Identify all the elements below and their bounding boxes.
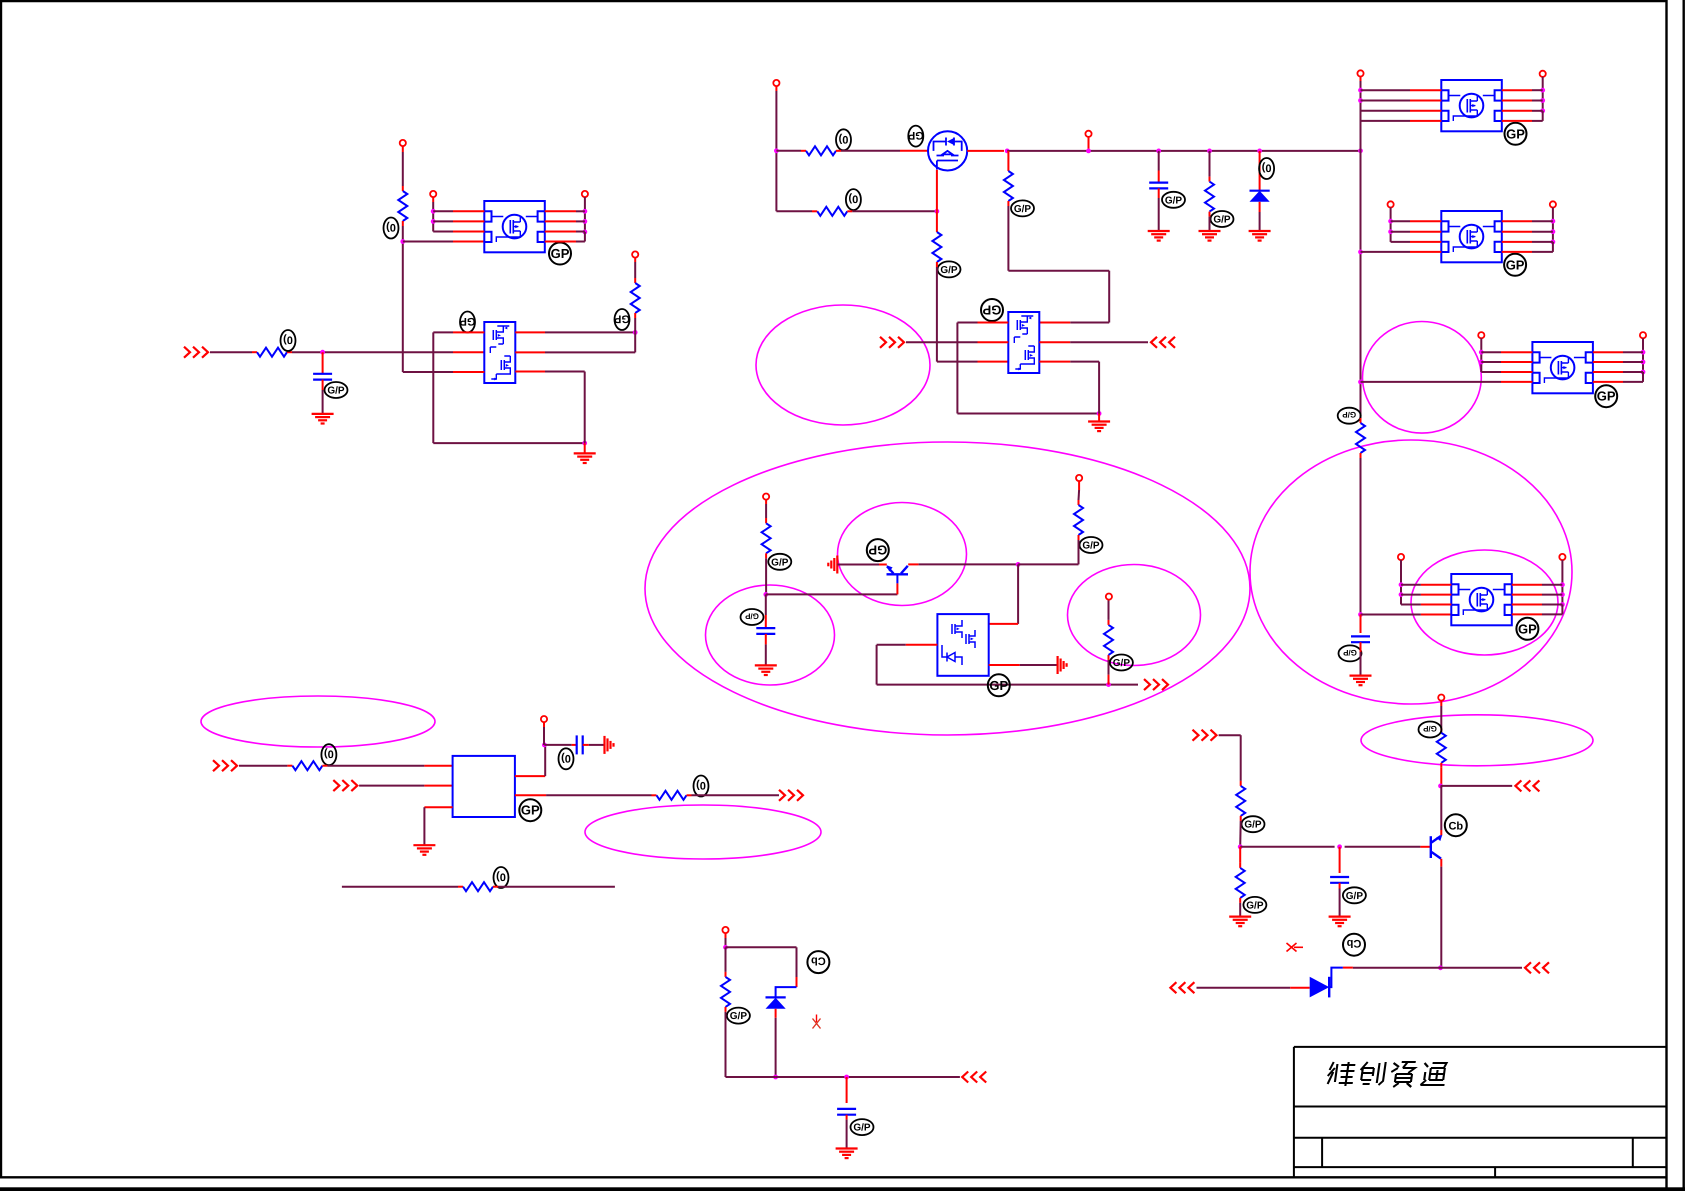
markup ellipse E1 (large center): [645, 442, 1250, 735]
wire U3 left pin3: [1361, 110, 1442, 112]
power port P4: [632, 251, 638, 257]
capacitor C7: [837, 1109, 856, 1115]
wire U4 right pin2 out: [1039, 341, 1148, 343]
power port P18: [541, 716, 547, 722]
svg-text:GP: GP: [908, 129, 924, 141]
label bubble for R13: [321, 744, 336, 765]
junction P8 row1: [1540, 88, 1545, 93]
ground symbol G12: [836, 1149, 858, 1159]
wire A6 to U7: [359, 785, 453, 787]
junction P11 row2: [1479, 360, 1484, 365]
mosfet package U6: [1532, 342, 1593, 393]
junction node base divider: [1238, 844, 1243, 849]
wire C6 to ground: [1339, 883, 1341, 917]
wire right bus vertical: [1360, 77, 1362, 419]
junction P2 bus row2: [431, 219, 436, 224]
wire C5 to earth: [583, 744, 604, 746]
title block outline: [1294, 1047, 1667, 1177]
junction node P6: [1086, 149, 1091, 154]
wire U4 left pin1 ground loop: [957, 323, 1099, 414]
net output arrow >>> A7: [779, 790, 803, 801]
ground symbol G2: [312, 414, 334, 424]
label bubble for R8: [1011, 200, 1034, 216]
markup ellipse E7 (flat, around resistor R19): [1361, 715, 1593, 766]
junction node C2 tap: [1156, 149, 1161, 154]
resistor R11: [1074, 505, 1083, 535]
wire P8 bus: [1542, 77, 1544, 111]
ground symbol G7: [1350, 676, 1372, 686]
power port P3: [582, 191, 588, 197]
wire R3 to junction and U2: [287, 351, 484, 353]
wire P6 stem: [1088, 137, 1090, 151]
net input arrow >>> A9: [1193, 730, 1217, 741]
resistor R1: [398, 191, 407, 221]
wire U5 right pin3: [1512, 604, 1563, 606]
wire R11 to node: [1018, 535, 1078, 564]
wire U5b right pin2: [1502, 231, 1553, 233]
designator bubble GP for U7: [519, 799, 541, 821]
wire Q2 collector down: [1440, 859, 1442, 968]
junction node U4 ground loop: [1097, 411, 1102, 416]
power port P6: [1085, 131, 1091, 137]
capacitor C3: [1351, 636, 1370, 642]
wire U3 left pin2: [1361, 100, 1442, 102]
wire U2 right pin3 to ground loop: [515, 372, 584, 444]
wire U5 right pin1: [1512, 584, 1563, 586]
ground symbol G1: [574, 453, 596, 463]
net input arrow >>> A1: [184, 347, 208, 358]
label bubble for R18: [1243, 897, 1266, 913]
power port P2: [430, 191, 436, 197]
junction P10 row3: [1551, 240, 1556, 245]
svg-text:GP: GP: [982, 303, 1001, 318]
markup ellipse E6 (around package U5): [1411, 550, 1558, 655]
label bubble for R11: [1080, 537, 1103, 553]
power port P20: [1438, 695, 1444, 701]
label bubble for R19: [1419, 722, 1442, 738]
junction node D2/R16: [773, 1075, 778, 1080]
wire U6 right pin3: [1593, 371, 1643, 373]
wire U1 right pin3: [545, 231, 585, 233]
svg-text:G/P: G/P: [1082, 541, 1100, 552]
label bubble for R15: [494, 867, 509, 888]
mosfet package U5: [1451, 574, 1512, 625]
wire U6 left pin4 from bus: [1361, 381, 1533, 383]
markup ellipse E9 (flat, above IC U7): [201, 696, 435, 747]
ground symbol G9: [413, 845, 435, 855]
resistor R9: [1356, 423, 1365, 453]
wire node down to U7c pin: [989, 564, 1018, 624]
wire R17 to base node: [1239, 816, 1242, 847]
ground symbol G10: [1229, 917, 1251, 927]
net output arrow <<< A3: [1151, 337, 1175, 348]
wire P14 bus: [1561, 560, 1563, 604]
wire P18 stem: [543, 722, 545, 745]
wire U1 left pin3: [433, 231, 484, 233]
net input arrow >>> A2: [880, 337, 904, 348]
markup ellipse E2 (around transistor Q3): [838, 503, 967, 606]
wire U3 right pin2: [1502, 100, 1543, 102]
wire ground loop to U4 pin3: [1039, 362, 1099, 414]
wire P4 to resistor R2: [634, 258, 636, 283]
wire C3 stem: [1360, 615, 1362, 634]
label bubble for C7: [851, 1119, 874, 1135]
mosfet package U1: [484, 201, 545, 252]
sheet frame right outer border: [1682, 0, 1684, 1191]
wire U7 mid right pin: [515, 794, 657, 796]
svg-text:G/P: G/P: [1346, 891, 1364, 902]
junction node Q1 out: [1005, 149, 1010, 154]
power port P12: [1640, 332, 1646, 338]
ground symbol G5: [1249, 231, 1271, 241]
wire U1 left pin1: [433, 210, 484, 212]
wire P1 to resistor R1: [402, 146, 404, 191]
wire U5 left pin1: [1401, 584, 1451, 586]
wire U3 left pin1: [1361, 89, 1442, 91]
svg-text:Cb: Cb: [1448, 821, 1463, 833]
wire D2 down: [775, 1009, 777, 1077]
designator bubble GP for U6: [1595, 385, 1617, 407]
svg-text:G/P: G/P: [327, 386, 345, 397]
wire C1 to ground: [322, 380, 324, 414]
wire to arrow A11: [1441, 967, 1523, 969]
resistor R19: [1437, 733, 1446, 763]
junction P2 bus row1: [431, 209, 436, 214]
wire C4 to ground: [765, 634, 767, 666]
svg-text:GP: GP: [1506, 257, 1525, 272]
svg-text:G/P: G/P: [1165, 195, 1183, 206]
wire U5 left pin2: [1401, 594, 1451, 596]
wire G6 stem: [1098, 414, 1100, 422]
junction P3 bus row2: [583, 219, 588, 224]
wire U6 left pin2: [1481, 361, 1532, 363]
label bubble for R4: [836, 129, 851, 150]
wire U6 left pin3: [1481, 371, 1532, 373]
junction P13 row1: [1399, 582, 1404, 587]
wire Q1 gate down: [936, 170, 938, 212]
zener diode D2: [766, 997, 786, 1008]
dual mosfet package U4: [1008, 312, 1039, 373]
wire U5b left pin2: [1391, 231, 1442, 233]
capacitor C1: [313, 374, 332, 380]
svg-text:G/P: G/P: [744, 612, 758, 621]
designator bubble for Q1: [908, 126, 924, 147]
resistor R15: [463, 882, 493, 891]
net input arrow >>> A6: [333, 780, 357, 791]
wire P9 bus: [1390, 208, 1392, 242]
resistor R2: [631, 283, 640, 313]
junction node at R1/row4: [400, 239, 405, 244]
junction node C7 tap: [844, 1075, 849, 1080]
zener diode D2 path jog: [776, 987, 797, 997]
label bubble for R12: [1110, 655, 1133, 671]
svg-text:0): 0): [696, 779, 706, 791]
svg-text:0): 0): [838, 133, 848, 145]
wire R14 to arrow: [687, 794, 780, 796]
wire R16 down corner: [726, 1007, 776, 1077]
svg-text:G/P: G/P: [1213, 215, 1231, 226]
wire U2 right pin2 jog: [515, 332, 635, 352]
wire C3 node to U5 pin4: [1361, 614, 1452, 616]
svg-text:Cb: Cb: [811, 955, 826, 967]
markup ellipse E11 (left of package U6): [1363, 322, 1482, 434]
markup ellipse E10 (left of package U4): [756, 305, 930, 425]
junction P13 row2: [1399, 592, 1404, 597]
label bubble for R9: [1338, 408, 1361, 424]
ground symbol G4: [1199, 231, 1221, 241]
designator bubble GP for U1: [549, 243, 571, 265]
wire C2 to ground: [1158, 188, 1160, 231]
wire U6 right pin1: [1593, 351, 1643, 353]
designator bubble GP for U5: [1516, 618, 1538, 640]
resistor R6: [817, 207, 847, 216]
dual mosfet package U7c (center): [937, 614, 988, 676]
resistor R12: [1104, 625, 1113, 655]
wire R13 to U7: [322, 765, 452, 767]
svg-text:GP: GP: [521, 803, 540, 818]
sheet frame right inner border: [1665, 0, 1667, 1191]
power port P17: [1106, 594, 1112, 600]
svg-text:0): 0): [1261, 162, 1271, 174]
no-connect marker X1: [813, 1015, 821, 1029]
wire standalone net right: [493, 886, 615, 888]
wire P19 stem: [725, 933, 727, 947]
label bubble for C3: [1339, 645, 1362, 661]
ground symbol G8: [755, 665, 777, 675]
transistor Q3 (NPN, emitter left): [887, 565, 909, 583]
svg-text:GP: GP: [989, 678, 1008, 693]
mosfet package U5b (middle right): [1441, 211, 1502, 262]
wire bus to R9: [1360, 418, 1362, 423]
wire C6 stem: [1339, 847, 1341, 873]
wire U7 ground pin: [424, 807, 452, 845]
label bubble for C5: [559, 748, 574, 769]
wire U1 right pin1: [545, 210, 585, 212]
net arrow <<< A10: [1515, 780, 1539, 791]
resistor R4: [806, 146, 836, 155]
wire ground stem G1: [584, 443, 586, 453]
earth ground left of Q3: [828, 556, 837, 574]
junction right bus row2: [1358, 98, 1363, 103]
wire P10 bus: [1552, 208, 1554, 242]
junction P12 row1: [1641, 350, 1646, 355]
wire U2 left pin3 from R1 net: [403, 371, 485, 373]
wire R18 branch: [1239, 847, 1241, 868]
markup ellipse E8 (flat, bottom left): [585, 805, 821, 859]
wire P13 bus: [1400, 560, 1402, 604]
resistor R16: [721, 977, 730, 1007]
wire R5 stem: [1209, 151, 1211, 182]
wire R16 branch: [725, 947, 727, 977]
junction node P19: [723, 945, 728, 950]
svg-text:Cb: Cb: [1346, 937, 1361, 949]
wire row2 from P5 corner: [776, 210, 817, 212]
transistor Q2 (PNP, base left): [1431, 835, 1443, 859]
junction right bus row4 pkg5: [1358, 380, 1363, 385]
wire emitter stem: [1440, 786, 1442, 836]
wire R6 to gate node: [847, 210, 937, 212]
wire R5 to ground: [1209, 212, 1211, 231]
svg-text:0): 0): [386, 221, 396, 233]
wire P11 bus: [1480, 338, 1482, 372]
svg-text:0): 0): [496, 871, 506, 883]
wire D1 stem: [1259, 151, 1261, 191]
svg-text:0): 0): [283, 334, 293, 346]
junction node rail/right bus: [1358, 148, 1363, 153]
wire U5b left pin1: [1391, 220, 1442, 222]
label bubble for R10: [768, 554, 791, 570]
power port P15: [763, 494, 769, 500]
zener diode D1: [1250, 191, 1270, 202]
wire Q1 source right: [967, 150, 1004, 152]
label bubble for R1: [384, 218, 399, 239]
wire U5b right pin1: [1502, 220, 1553, 222]
junction P10 row1: [1551, 219, 1556, 224]
dual mosfet package U2: [484, 322, 515, 383]
wire U5 left pin3: [1401, 604, 1451, 606]
power port P7: [1357, 70, 1363, 76]
wire P20 to R19: [1440, 701, 1442, 733]
junction node P5 row1: [774, 148, 779, 153]
wire standalone net left: [342, 886, 463, 888]
wire to arrow A10: [1441, 785, 1513, 787]
wire R8 stem: [1007, 151, 1009, 171]
capacitor C5: [577, 735, 583, 754]
wire gate node to resistor R7: [936, 211, 938, 232]
resistor R8: [1004, 171, 1013, 201]
junction right bus row1: [1358, 88, 1363, 93]
wire P15 to R10: [765, 500, 767, 524]
label bubble for R5: [1211, 211, 1234, 227]
svg-text:G/P: G/P: [1342, 410, 1356, 419]
resistor R14: [657, 791, 687, 800]
earth ground right of C5: [605, 736, 614, 754]
markup ellipse E3 (around capacitor C4): [706, 585, 835, 685]
wire D1 to ground: [1259, 202, 1261, 231]
junction node C3 tap: [1358, 612, 1363, 617]
svg-text:G/P: G/P: [1246, 900, 1264, 911]
wire bottom rail: [776, 1076, 960, 1078]
net output arrow >>> A4: [1144, 679, 1168, 690]
resistor R10: [762, 523, 771, 553]
label bubble for C1: [325, 382, 348, 398]
junction P14 row3: [1560, 602, 1565, 607]
ground symbol G6: [1088, 422, 1110, 432]
wire U3 left pin4: [1361, 120, 1442, 122]
power port P9: [1388, 201, 1394, 207]
wire C1 stem: [322, 352, 324, 373]
power port P1: [400, 140, 406, 146]
label bubble for R17: [1242, 816, 1265, 832]
ground symbol G11: [1329, 917, 1351, 927]
wire P16 to R11: [1078, 481, 1081, 505]
svg-text:G/P: G/P: [771, 557, 789, 568]
wire R19 to emitter node: [1440, 763, 1442, 786]
svg-text:G/P: G/P: [1014, 204, 1032, 215]
wire C7 stem: [846, 1077, 848, 1103]
title block company name text (vector strokes): [1326, 1062, 1448, 1087]
resistor R17: [1236, 786, 1245, 816]
designator bubble for Q3: [867, 539, 889, 561]
svg-text:GP: GP: [1518, 621, 1537, 636]
wire U5b right pin3: [1502, 241, 1553, 243]
wire node to Q3 base: [766, 593, 898, 595]
wire Q3 collector right: [908, 563, 1018, 565]
net arrow <<< A8: [962, 1072, 986, 1083]
wire P5 bus down: [775, 86, 777, 211]
designator bubble for U2: [460, 312, 476, 333]
net arrow <<< A11: [1525, 962, 1549, 973]
mosfet Q1 (circle symbol): [928, 131, 967, 170]
net arrow <<< A12: [1170, 982, 1194, 993]
sheet frame bottom line: [0, 1176, 1667, 1178]
wire row1 to resistor R4: [776, 150, 806, 152]
power port P10: [1550, 201, 1556, 207]
designator bubble Cb near D3: [1343, 934, 1365, 956]
capacitor C2: [1149, 183, 1168, 189]
junction node U2 pin1 / R2: [633, 330, 638, 335]
wire U5b left pin4 from bus: [1361, 251, 1442, 253]
svg-text:GP: GP: [1506, 126, 1525, 141]
junction P9 row2: [1388, 229, 1393, 234]
svg-text:G/P: G/P: [1113, 658, 1131, 669]
designator bubble for U4: [981, 299, 1003, 321]
label bubble for R6: [846, 189, 861, 210]
wire R1 down long vertical: [402, 221, 404, 372]
wire node to C5: [544, 744, 576, 746]
junction P12 row2: [1641, 360, 1646, 365]
svg-text:G/P: G/P: [1244, 820, 1262, 831]
designator bubble GP for U5b: [1504, 254, 1526, 276]
junction P3 bus row1: [583, 209, 588, 214]
junction P14 row1: [1560, 582, 1565, 587]
wire U3 right pin4 jog: [1502, 111, 1543, 121]
label bubble for C4: [741, 609, 764, 625]
wire R12 stem up: [1108, 655, 1110, 685]
resistor R3: [257, 348, 287, 357]
power port P5: [773, 80, 779, 86]
svg-text:GP: GP: [460, 315, 476, 327]
capacitor C6: [1330, 877, 1349, 883]
power port P8: [1540, 71, 1546, 77]
junction node Q1 gate: [935, 209, 940, 214]
junction P8 row2: [1540, 98, 1545, 103]
junction right bus row4 pkg2: [1358, 250, 1363, 255]
junction node collector/net: [1438, 965, 1443, 970]
wire U5b left pin3: [1391, 241, 1442, 243]
wire base rail: [1240, 846, 1431, 848]
designator bubble GP on wire: [988, 674, 1010, 696]
junction node R5 tap: [1207, 149, 1212, 154]
power port P19: [722, 927, 728, 933]
resistor R13: [292, 761, 322, 770]
power port P13: [1398, 554, 1404, 560]
diode D3: [1310, 968, 1343, 998]
svg-text:G/P: G/P: [1422, 724, 1436, 733]
designator bubble GP for U3: [1505, 123, 1527, 145]
sheet frame bottom black bar: [0, 1187, 1685, 1191]
net input arrow >>> A5: [213, 760, 237, 771]
wire Q3 base stem: [896, 583, 898, 594]
junction node Q3 collector/R11: [1016, 562, 1021, 567]
wire A9 corner down: [1219, 735, 1241, 786]
junction node R12 tap: [1106, 682, 1111, 687]
label bubble for R2: [614, 309, 630, 330]
wire U6 right pin2: [1593, 361, 1643, 363]
junction node emitter/net: [1438, 784, 1443, 789]
wire R7 down to U4 row3: [937, 262, 1008, 362]
wire U5b right pin4 jog: [1502, 242, 1553, 252]
